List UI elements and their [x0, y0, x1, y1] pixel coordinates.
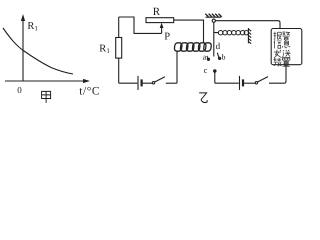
- svg-text:b: b: [222, 52, 226, 61]
- svg-text:t/°C: t/°C: [79, 86, 100, 98]
- svg-text:R1: R1: [27, 21, 38, 33]
- svg-text:0: 0: [17, 85, 22, 95]
- svg-text:d: d: [216, 41, 221, 51]
- svg-text:a: a: [203, 53, 207, 62]
- svg-text:R: R: [153, 6, 161, 18]
- svg-text:R1: R1: [99, 43, 110, 55]
- svg-text:P: P: [164, 32, 170, 43]
- svg-text:c: c: [204, 65, 208, 75]
